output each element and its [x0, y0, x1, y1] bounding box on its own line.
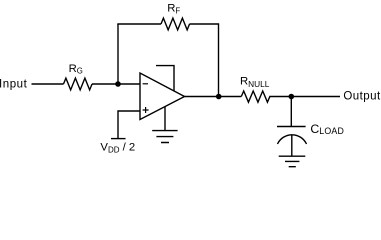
svg-text:Output: Output: [343, 91, 381, 103]
node load junction: [289, 94, 295, 100]
ground op-amp supply: [152, 131, 177, 143]
wire feedback top right segment: [190, 23, 219, 25]
wire Input to RG: [32, 83, 64, 85]
wire RNULL to Output: [269, 96, 340, 98]
op-amp U1: [140, 73, 185, 120]
op-amp minus input marker: [143, 83, 148, 85]
capacitor CLOAD curved plate: [278, 135, 307, 144]
node inverting input junction: [115, 81, 121, 87]
op-amp plus input marker: [143, 107, 149, 113]
wire op-amp output: [185, 96, 242, 98]
VDD/2 source terminal: [111, 138, 126, 140]
svg-text:RG: RG: [69, 63, 83, 76]
wire feedback right vertical: [218, 23, 220, 96]
op-amp negative supply wire: [164, 107, 166, 131]
resistor RG: [64, 78, 93, 90]
wire load node to CLOAD: [290, 97, 292, 127]
resistor RNULL: [241, 91, 270, 102]
svg-text:Input: Input: [0, 78, 28, 90]
svg-text:RF: RF: [167, 3, 180, 16]
svg-text:RNULL: RNULL: [240, 75, 270, 89]
wire feedback top left segment: [117, 23, 161, 25]
wire noninverting input to VDD/2: [118, 111, 140, 139]
resistor RF: [161, 18, 190, 30]
ground CLOAD: [279, 156, 306, 167]
svg-text:CLOAD: CLOAD: [310, 122, 344, 136]
capacitor CLOAD lead: [291, 135, 293, 156]
wire feedback left vertical: [117, 24, 119, 84]
node feedback output junction: [216, 94, 222, 100]
capacitor CLOAD top plate: [277, 126, 306, 128]
op-amp positive supply stub: [156, 66, 174, 92]
wire RG to inverting input: [92, 83, 140, 85]
svg-text:VDD / 2: VDD / 2: [100, 141, 135, 154]
